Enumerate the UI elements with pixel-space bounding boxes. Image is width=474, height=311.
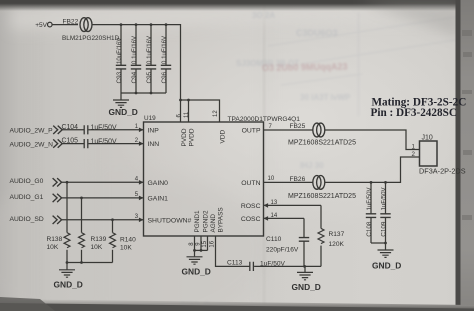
svg-text:C93: C93: [116, 71, 123, 83]
wire cap ground bus: [121, 92, 166, 94]
ferrite bead FB25: [313, 123, 325, 137]
svg-text:FB25: FB25: [290, 123, 306, 130]
svg-text:C109: C109: [380, 221, 387, 237]
ground GND_D (oscillator): [304, 266, 306, 272]
wire AUDIO_SD to pin 3 SHUTDOWN: [61, 219, 143, 221]
svg-text:C110: C110: [266, 236, 282, 243]
ground GND_D (cap bank): [120, 93, 122, 100]
svg-text:C104: C104: [62, 124, 79, 131]
svg-text:C94: C94: [131, 71, 138, 83]
node AUDIO_2W_N input: [53, 139, 62, 147]
capacitor C94: [135, 25, 137, 93]
svg-text:10K: 10K: [47, 244, 59, 251]
svg-text:2: 2: [412, 151, 416, 158]
svg-text:R140: R140: [120, 237, 136, 244]
svg-text:10: 10: [268, 176, 275, 182]
svg-text:FB22: FB22: [63, 19, 79, 26]
svg-text:15: 15: [202, 240, 208, 247]
svg-text:GND_D: GND_D: [54, 280, 83, 290]
wire C113 to ground bus: [254, 265, 321, 267]
ferrite bead FB26: [313, 176, 325, 190]
svg-text:AUDIO_2W_P: AUDIO_2W_P: [10, 128, 54, 135]
wire C108 C109 ground bus: [371, 242, 386, 244]
power terminal +5V: [48, 22, 53, 27]
svg-text:11: 11: [184, 111, 190, 118]
svg-text:R138: R138: [47, 236, 63, 243]
svg-text:DF3A-2P-2DS: DF3A-2P-2DS: [419, 167, 466, 176]
svg-text:AUDIO_G1: AUDIO_G1: [10, 194, 44, 201]
wire C104 to pin 1 INP: [89, 129, 144, 131]
svg-text:R137: R137: [329, 231, 345, 238]
svg-text:C113: C113: [227, 259, 243, 266]
ground GND_D (output caps): [385, 243, 387, 250]
svg-text:PGND2: PGND2: [203, 210, 210, 232]
wire pin 16 BYPASS to C113: [216, 236, 250, 266]
capacitor C110: [303, 218, 305, 266]
svg-text:0.1uF/16V: 0.1uF/16V: [131, 35, 138, 64]
wire AUDIO_G0 to pin 4 GAIN0: [61, 181, 143, 183]
node AUDIO_SD input: [53, 216, 62, 224]
wire resistor ground bus: [67, 262, 113, 264]
svg-text:OUTN: OUTN: [241, 180, 260, 187]
svg-text:U19: U19: [144, 115, 156, 122]
wire FB25 to J10 pin 1: [325, 130, 420, 150]
node AUDIO_2W_P input: [53, 126, 62, 134]
wire FB26 to J10 pin 2: [325, 157, 420, 182]
node AUDIO_G1 input: [53, 194, 62, 202]
svg-text:C95: C95: [146, 71, 153, 83]
wire pin 7 OUTP to FB25: [264, 129, 314, 131]
svg-text:120K: 120K: [329, 241, 345, 248]
wire pin 11: [188, 100, 190, 122]
ferrite bead FB22: [80, 18, 92, 32]
svg-text:1uF/50V: 1uF/50V: [366, 187, 373, 211]
capacitor C96: [165, 25, 167, 93]
svg-text:J10: J10: [422, 135, 433, 142]
connector J10: [420, 141, 438, 166]
svg-text:PVDD: PVDD: [189, 128, 196, 146]
svg-text:AGND: AGND: [210, 214, 217, 233]
svg-text:COSC: COSC: [241, 216, 261, 223]
svg-text:30 IA3T IvWP: 30 IA3T IvWP: [300, 93, 351, 102]
svg-text:220pF/16V: 220pF/16V: [266, 246, 299, 253]
ground GND_D (U19 pins): [194, 250, 196, 256]
svg-text:10uF/16V: 10uF/16V: [116, 37, 123, 64]
resistor R140: [112, 220, 114, 233]
wire pin 10 OUTN to FB26: [264, 181, 314, 183]
wire C105 to pin 2 INN: [89, 143, 144, 145]
svg-text:C3DU6O3: C3DU6O3: [296, 28, 338, 38]
svg-text:+5V: +5V: [35, 22, 47, 29]
svg-text:INN: INN: [148, 141, 160, 148]
svg-text:INP: INP: [148, 127, 160, 134]
svg-text:0.1uF/16V: 0.1uF/16V: [161, 35, 168, 64]
svg-text:GND_D: GND_D: [372, 260, 401, 270]
wire AUDIO_2W_N to C105: [62, 143, 84, 145]
svg-text:AUDIO_2W_N: AUDIO_2W_N: [10, 141, 54, 148]
capacitor C93: [120, 25, 122, 93]
svg-text:Pin : DF3-2428SC: Pin : DF3-2428SC: [371, 107, 457, 119]
svg-text:GND_D: GND_D: [292, 282, 321, 292]
svg-text:C105: C105: [62, 138, 79, 145]
svg-text:1uF/50V: 1uF/50V: [380, 187, 387, 211]
svg-text:PGND1: PGND1: [194, 210, 201, 232]
svg-text:GND_D: GND_D: [182, 266, 211, 276]
svg-text:3O 2A: 3O 2A: [252, 11, 275, 20]
svg-text:GAIN0: GAIN0: [148, 180, 169, 187]
svg-text:0.1uF/16V: 0.1uF/16V: [146, 35, 153, 64]
capacitor C108: [370, 182, 372, 243]
svg-text:1uF/50V: 1uF/50V: [91, 138, 117, 145]
svg-text:BLM21PG220SH1D: BLM21PG220SH1D: [62, 35, 120, 42]
capacitor C113: [250, 262, 254, 271]
resistor R139: [81, 198, 83, 233]
capacitor C104: [84, 125, 88, 134]
svg-text:13: 13: [271, 200, 278, 206]
svg-text:MPZ1608S221ATD25: MPZ1608S221ATD25: [288, 193, 356, 200]
capacitor C109: [385, 182, 387, 243]
svg-text:FB26: FB26: [290, 176, 306, 183]
op-amp U19 TPA2000D1 body: [144, 122, 264, 236]
svg-text:1uF/50V: 1uF/50V: [91, 125, 117, 132]
svg-text:AUDIO_G0: AUDIO_G0: [10, 178, 44, 185]
wire +5V to FB22: [52, 24, 78, 26]
node AUDIO_G0 input: [53, 178, 62, 186]
node PVDD junction dots: [179, 99, 182, 102]
capacitor C95: [150, 25, 152, 93]
svg-text:12: 12: [213, 110, 219, 117]
svg-text:10K: 10K: [91, 244, 103, 251]
wire pin 6: [180, 100, 182, 122]
svg-text:OUTP: OUTP: [242, 128, 261, 135]
wire pin 14 COSC to C110: [264, 216, 269, 221]
svg-text:O3 2Ub0 9MUqqA23: O3 2Ub0 9MUqqA23: [262, 62, 348, 73]
svg-text:16: 16: [210, 240, 216, 247]
capacitor C105: [84, 139, 88, 148]
svg-text:R139: R139: [91, 236, 107, 243]
svg-text:C96: C96: [161, 71, 168, 83]
svg-text:10K: 10K: [120, 245, 132, 252]
wire AUDIO_G1 to pin 5 GAIN1: [61, 197, 143, 199]
svg-text:AUDIO_SD: AUDIO_SD: [10, 216, 44, 223]
svg-text:PVDD: PVDD: [181, 128, 188, 146]
svg-text:C108: C108: [366, 221, 373, 237]
svg-text:14: 14: [271, 213, 278, 219]
svg-text:SHUTDOWN#: SHUTDOWN#: [148, 217, 192, 224]
svg-text:MPZ1608S221ATD25: MPZ1608S221ATD25: [288, 140, 356, 147]
svg-text:GND_D: GND_D: [109, 107, 138, 117]
wire bottom pins ground bus: [195, 249, 208, 251]
svg-text:GAIN1: GAIN1: [148, 196, 169, 203]
ground GND_D (resistors): [66, 263, 68, 270]
wire PVDD node horizontal to pin 12: [181, 100, 220, 122]
wire AUDIO_2W_P to C104: [62, 129, 84, 131]
wire pin 9 PGND2: [200, 236, 202, 250]
wire pin 13 ROSC to R137: [264, 203, 269, 208]
svg-text:1: 1: [412, 143, 416, 150]
svg-text:VDD: VDD: [220, 129, 227, 143]
svg-text:ROSC: ROSC: [241, 203, 261, 210]
resistor R138: [66, 182, 68, 232]
svg-text:1uF/50V: 1uF/50V: [260, 261, 286, 268]
wire FB22 to rail corner and down to PVDD node: [92, 25, 181, 100]
svg-text:IHJ 30: IHJ 30: [300, 161, 324, 170]
svg-text:BYPASS: BYPASS: [218, 207, 225, 232]
wire pin 8 PGND1: [194, 236, 196, 250]
wire pin 15 AGND: [207, 236, 209, 250]
resistor R137: [320, 205, 322, 228]
